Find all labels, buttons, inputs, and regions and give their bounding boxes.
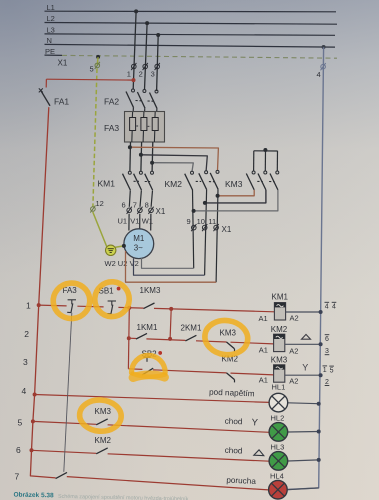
svg-text:W1: W1 <box>142 217 153 226</box>
svg-text:3: 3 <box>151 70 155 79</box>
svg-text:KM3: KM3 <box>220 328 237 337</box>
svg-text:5: 5 <box>18 418 23 428</box>
svg-text:V1: V1 <box>130 217 139 226</box>
svg-text:A2: A2 <box>289 347 298 356</box>
svg-text:HL1: HL1 <box>272 382 286 391</box>
svg-text:1KM1: 1KM1 <box>137 323 158 332</box>
svg-text:9: 9 <box>187 217 191 226</box>
svg-text:A1: A1 <box>259 376 268 385</box>
svg-text:2: 2 <box>24 329 29 339</box>
svg-text:KM1: KM1 <box>98 179 116 189</box>
svg-text:5: 5 <box>330 367 334 374</box>
svg-text:FA3: FA3 <box>63 286 78 295</box>
svg-text:L1: L1 <box>47 3 55 12</box>
svg-text:V2: V2 <box>130 259 139 268</box>
svg-text:10: 10 <box>197 217 205 226</box>
svg-text:M1: M1 <box>133 234 145 243</box>
svg-text:A1: A1 <box>259 346 268 355</box>
svg-text:KM2: KM2 <box>271 325 288 334</box>
svg-text:7: 7 <box>15 472 20 482</box>
svg-text:A1: A1 <box>259 314 268 323</box>
svg-text:5: 5 <box>90 65 94 74</box>
svg-text:3~: 3~ <box>134 243 143 252</box>
svg-text:FA1: FA1 <box>54 97 69 107</box>
svg-text:4: 4 <box>22 386 27 396</box>
svg-text:FA3: FA3 <box>104 123 119 133</box>
svg-text:1KM3: 1KM3 <box>140 286 161 295</box>
svg-text:6: 6 <box>16 445 21 455</box>
svg-text:4: 4 <box>317 70 321 79</box>
svg-text:7: 7 <box>133 201 137 210</box>
svg-text:X1: X1 <box>222 225 232 234</box>
svg-text:chod: chod <box>225 417 244 427</box>
svg-text:KM3: KM3 <box>225 179 243 189</box>
svg-text:X1: X1 <box>58 59 68 68</box>
svg-text:HL2: HL2 <box>271 414 285 423</box>
svg-text:chod: chod <box>225 446 244 456</box>
svg-text:L2: L2 <box>47 14 55 23</box>
svg-text:KM3: KM3 <box>95 407 112 416</box>
svg-text:KM2: KM2 <box>95 436 112 445</box>
svg-text:4: 4 <box>325 304 329 311</box>
svg-text:8: 8 <box>145 201 149 210</box>
svg-text:W2: W2 <box>105 259 116 268</box>
svg-text:1: 1 <box>127 70 131 79</box>
svg-text:A2: A2 <box>289 377 298 386</box>
svg-text:Obrázek 5.38: Obrázek 5.38 <box>13 492 54 500</box>
svg-text:2: 2 <box>325 379 329 386</box>
svg-text:2KM1: 2KM1 <box>181 323 202 332</box>
svg-text:PE: PE <box>45 47 55 56</box>
svg-text:2: 2 <box>139 70 143 79</box>
svg-text:3: 3 <box>325 348 329 355</box>
svg-text:Y: Y <box>302 362 308 372</box>
svg-text:3: 3 <box>23 357 28 367</box>
svg-text:HL4: HL4 <box>270 472 284 481</box>
svg-text:6: 6 <box>122 201 126 210</box>
svg-text:Y: Y <box>251 417 258 428</box>
svg-text:11: 11 <box>208 217 216 226</box>
svg-text:4: 4 <box>332 304 336 311</box>
svg-text:A2: A2 <box>290 314 299 323</box>
svg-text:porucha: porucha <box>226 476 256 486</box>
svg-text:KM3: KM3 <box>271 355 288 364</box>
svg-text:pod napětím: pod napětím <box>209 388 255 399</box>
svg-text:KM1: KM1 <box>272 292 289 301</box>
svg-text:X1: X1 <box>156 207 166 216</box>
svg-text:U1: U1 <box>118 217 128 226</box>
svg-text:N: N <box>47 36 52 45</box>
svg-text:1: 1 <box>26 301 31 311</box>
svg-text:FA2: FA2 <box>104 96 119 106</box>
svg-text:L3: L3 <box>47 26 55 35</box>
svg-text:KM2: KM2 <box>165 179 183 189</box>
svg-text:12: 12 <box>96 199 104 208</box>
svg-text:1: 1 <box>323 367 327 374</box>
svg-text:HL3: HL3 <box>271 443 285 452</box>
svg-text:6: 6 <box>325 336 329 343</box>
